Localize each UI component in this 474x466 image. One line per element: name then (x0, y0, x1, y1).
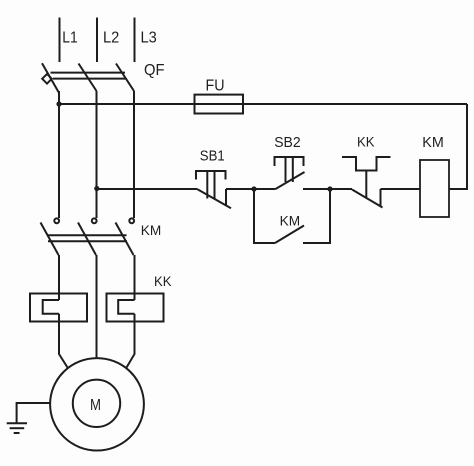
node junction dot branch B (327, 186, 332, 191)
wire top control rail to FU (59, 103, 195, 105)
breaker QF pole 2 blade (79, 64, 97, 92)
relay KK heater element 1 box (30, 294, 87, 322)
coil KM box (420, 160, 449, 217)
fuse FU box (195, 95, 244, 114)
relay KK NC blade (352, 190, 383, 208)
pushbutton SB1 NC blade (197, 189, 231, 208)
relay KK actuator stem (365, 171, 367, 198)
contact KM main pole 1 fixed circle (54, 218, 59, 223)
wire control rail L2 to SB1 (97, 188, 197, 190)
svg-text:KK: KK (154, 273, 172, 289)
svg-text:KM: KM (141, 222, 162, 238)
contact KM main pole 1 blade (41, 223, 59, 256)
wire SB1 to SB2 (226, 188, 276, 190)
relay KK right terminal riser (380, 189, 382, 207)
svg-text:KM: KM (422, 135, 444, 151)
wire L2 top lead (96, 18, 98, 63)
contact KM main pole 3 blade (116, 223, 134, 256)
wire phase3 KM to heater (134, 255, 136, 300)
fuse FU wire through (195, 103, 244, 105)
node junction dot branch A (251, 186, 256, 191)
svg-text:L3: L3 (141, 30, 157, 47)
relay KK heater element 2 jog (118, 300, 134, 314)
relay KK trip actuator cup (342, 157, 391, 171)
contact KM main linkage bar upper (48, 234, 127, 236)
contact KM auxiliary NO blade (275, 226, 304, 244)
relay KK heater element 2 box (107, 294, 164, 322)
wire phase2 QF to KM contact (96, 91, 98, 218)
wire FU to right corner (243, 103, 467, 105)
svg-text:KK: KK (357, 133, 375, 149)
breaker QF pole 1 blade (42, 63, 59, 92)
breaker QF handle square (42, 74, 52, 84)
node junction dot L2 / control rail tap (94, 186, 99, 191)
wire KK to KM coil (381, 188, 421, 190)
wire SB2 to KK contact (303, 188, 352, 190)
contact KM auxiliary branch left drop (254, 189, 275, 243)
svg-text:M: M (90, 397, 101, 414)
ground bar 2 (10, 427, 25, 429)
pushbutton SB2 cap (275, 157, 304, 166)
contact KM main pole 2 fixed circle (92, 218, 97, 223)
pushbutton SB2 NO blade (276, 172, 305, 189)
pushbutton SB2 plunger line 1 (285, 157, 287, 182)
wire heater1 to motor (59, 314, 68, 368)
svg-text:SB2: SB2 (274, 135, 301, 151)
contact KM auxiliary right return (303, 189, 330, 243)
ground bar 1 (7, 422, 27, 424)
contact KM main pole 2 blade (78, 223, 96, 256)
wire phase1 KM to heater (58, 255, 60, 300)
svg-text:L1: L1 (62, 30, 78, 47)
ground bar 3 (14, 432, 20, 434)
wire phase2 KM to motor (96, 255, 98, 359)
svg-text:FU: FU (206, 78, 225, 95)
wire phase3 QF to KM contact (133, 91, 135, 218)
pushbutton SB1 cap (196, 171, 226, 180)
wire L3 top lead (134, 18, 136, 63)
wire right side drop (449, 104, 467, 189)
svg-text:KM: KM (280, 212, 301, 228)
pushbutton SB2 plunger line 2 (292, 157, 294, 182)
contact KM main linkage bar lower (48, 240, 127, 242)
wire motor to ground (17, 403, 50, 423)
svg-text:L2: L2 (103, 30, 119, 47)
node junction dot L1 / control tap (56, 101, 61, 106)
motor M outer circle (50, 358, 144, 450)
wire phase1 QF to KM contact (58, 91, 60, 218)
pushbutton SB1 plunger line 1 (206, 171, 208, 199)
breaker QF linkage bar upper (51, 72, 126, 74)
breaker QF pole 3 blade (116, 64, 134, 92)
relay KK heater element 1 jog (43, 300, 59, 314)
wire L1 top lead (59, 18, 61, 63)
wire heater2 to motor (127, 314, 135, 368)
pushbutton SB1 right terminal riser (225, 189, 227, 206)
svg-text:QF: QF (144, 62, 165, 79)
svg-text:SB1: SB1 (200, 148, 225, 164)
breaker QF linkage bar lower (53, 78, 126, 80)
motor M inner circle (73, 380, 120, 427)
contact KM main pole 3 fixed circle (129, 218, 134, 223)
pushbutton SB1 plunger line 2 (214, 171, 216, 199)
